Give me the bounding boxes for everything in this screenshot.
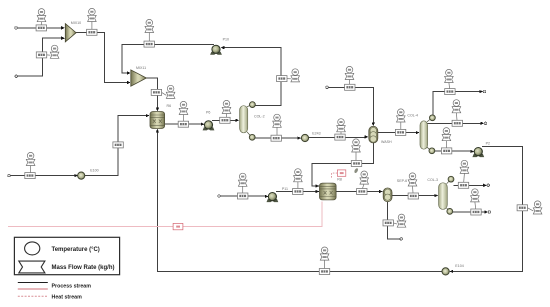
COL3 reboiler (447, 208, 453, 214)
WASH bottoms value box and indicator (351, 139, 361, 167)
svg-text:MIX11: MIX11 (136, 66, 146, 70)
mixer MIX10 (65, 24, 76, 42)
valve glyph below WASH bottoms box (354, 168, 359, 174)
wire feed stream S97 into WASH top (326, 86, 375, 126)
pump P11 feed value box and indicator (238, 173, 248, 199)
heat stream Q6 dashed line to reactor R8 bottom (8, 202, 322, 227)
mixer MIX11 (131, 70, 147, 86)
pump P6 (203, 121, 215, 131)
reactor R8 (320, 183, 337, 200)
wire recycle from cooler E104 left and up into reactor R6 bottom (156, 129, 442, 272)
COL4 bottoms S109 value box and indicator (441, 128, 451, 154)
COL3 feed S103 value box and indicator (408, 173, 418, 199)
wire exchanger E243 outlet to WASH left inlet (309, 135, 369, 138)
wire feed stream through exchanger E100 up into reactor R6 left (8, 114, 150, 177)
svg-text:COL-2: COL-2 (254, 114, 265, 118)
pump P11 (267, 193, 279, 203)
wire WASH overhead to COL4 feed (378, 131, 420, 134)
COL2 bottoms value box and indicator (271, 114, 281, 141)
heat stream Q6 label box (173, 223, 183, 229)
COL2 condenser (247, 102, 255, 108)
svg-text:Mass Flow Rate (kg/h): Mass Flow Rate (kg/h) (52, 265, 115, 271)
exchanger E243 (301, 134, 308, 141)
wire MIX11 outlet S90 down into reactor R6 top (146, 78, 159, 111)
stream S87 value box and indicator (36, 9, 46, 31)
column COL4 (420, 121, 428, 149)
svg-text:P11: P11 (282, 187, 288, 191)
wire pump P2 outlet recycle down and left into cooler E104 (449, 146, 522, 273)
wire WASH bottoms left and down into reactor R8 top (312, 143, 374, 188)
column COL3 (439, 183, 448, 210)
wire COL4 bottoms S109 to pump P2 (435, 150, 474, 153)
COL4 distillate S107 value box and indicator (445, 69, 455, 94)
heat stream Q8 dashes to reactor R8 (332, 173, 338, 179)
wire pump P6 outlet to COL2 feed (212, 119, 239, 122)
svg-text:P6: P6 (206, 111, 210, 115)
pump P10 (210, 45, 222, 55)
WASH feed value box and indicator (335, 119, 346, 140)
svg-text:P10: P10 (223, 38, 229, 42)
WASH overhead value box and indicator (395, 109, 405, 135)
legend heat stream dashed line (18, 295, 48, 297)
wire feed stream S100 to pump P11 (218, 195, 269, 198)
COL2 distillate value box and indicator (277, 69, 300, 82)
wire pump P11 outlet S101 into reactor R8 left (276, 190, 319, 193)
wire reactor R6 outlet to pump P6 (165, 123, 205, 126)
legend mass flow banner icon (19, 261, 45, 273)
stream S88 value box and indicator (36, 45, 59, 58)
svg-text:Heat stream: Heat stream (52, 294, 83, 300)
svg-text:SEP-6: SEP-6 (397, 179, 407, 183)
COL3 bottoms value box and indicator (471, 189, 482, 215)
reactor R6 (150, 112, 165, 129)
recycle stream S110 value box and indicator (517, 201, 542, 214)
svg-text:COL-3: COL-3 (427, 178, 438, 182)
stream S90 value box and indicator (151, 85, 175, 98)
wire COL2 distillate recycle up and left into pump P10 (221, 46, 281, 106)
wire COL4 distillate product S107 (433, 90, 486, 115)
svg-text:WASH: WASH (381, 140, 392, 144)
reactor R8 outlet S102 value box and indicator (357, 171, 369, 195)
wire pump P10 outlet to MIX11 upper inlet (122, 45, 214, 75)
bottom-left feed value box and indicator (25, 152, 35, 178)
wire COL3 bottoms product (453, 210, 491, 213)
COL2 feed value box and indicator (220, 100, 231, 123)
svg-text:MIX10: MIX10 (71, 21, 81, 25)
wire COL2 bottoms to exchanger E243 (255, 136, 301, 139)
wire feed stream S87 to MIX10 upper inlet (15, 26, 65, 29)
column COL2 (240, 106, 248, 133)
wire COL4 side draw product S108 (428, 122, 487, 125)
stream S89 value box and indicator (87, 8, 97, 35)
legend temperature circle icon (25, 242, 40, 255)
pump P2 (472, 148, 484, 158)
wire SEP6 bottoms S104 down to product terminal (388, 202, 403, 240)
svg-text:Temperature (°C): Temperature (°C) (52, 247, 100, 253)
svg-text:E100: E100 (90, 168, 98, 172)
COL4 reboiler (427, 147, 435, 154)
stream S97 value box and indicator (345, 66, 355, 90)
COL4 condenser (427, 115, 435, 122)
svg-text:COL-4: COL-4 (407, 113, 418, 117)
wire MIX10 outlet S89 down to MIX11 lower inlet (76, 33, 131, 85)
SEP6 bottoms S104 value box and indicator (383, 214, 406, 227)
legend red solid line (18, 288, 48, 290)
legend process stream line (18, 282, 48, 284)
separator SEP6 (383, 188, 392, 202)
COL3 distillate value box and indicator (458, 160, 468, 188)
cooler E104 (442, 268, 449, 275)
wire COL3 distillate product (454, 184, 490, 187)
COL3 condenser (447, 176, 454, 184)
recycle stream S111 value box and indicator (319, 247, 329, 275)
reactor R6 outlet value box and indicator (178, 101, 188, 127)
COL2 reboiler (247, 132, 255, 140)
wash vessel WASH (369, 126, 378, 143)
svg-text:R6: R6 (167, 104, 172, 108)
feed riser value box (113, 142, 123, 148)
heat stream Q8 label box (337, 170, 345, 176)
wire reactor R8 outlet S102 to SEP6 (336, 190, 383, 193)
recycle stream value box and indicator on pump P10 line (144, 19, 154, 47)
svg-text:P2: P2 (486, 141, 490, 145)
wire feed stream S88 to MIX10 lower inlet (15, 37, 65, 78)
stream S101 value box and indicator (293, 169, 303, 195)
svg-text:Process stream: Process stream (52, 283, 92, 289)
legend box (14, 237, 119, 274)
COL4 side draw S108 value box and indicator (452, 100, 462, 127)
svg-text:R8: R8 (337, 178, 342, 182)
svg-text:E243: E243 (312, 131, 320, 135)
wire SEP6 overhead S103 to COL3 feed (392, 194, 438, 197)
exchanger E100 (78, 172, 85, 179)
svg-text:E104: E104 (455, 264, 463, 268)
